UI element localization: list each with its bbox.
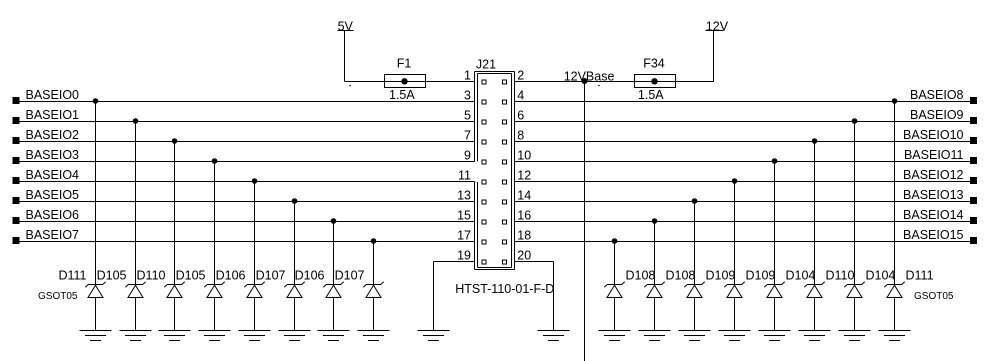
svg-text:10: 10 bbox=[517, 149, 531, 163]
svg-text:16: 16 bbox=[517, 209, 531, 223]
svg-text:BASEIO7: BASEIO7 bbox=[26, 228, 80, 242]
svg-text:8: 8 bbox=[517, 129, 524, 143]
svg-text:15: 15 bbox=[457, 209, 471, 223]
svg-text:BASEIO1: BASEIO1 bbox=[26, 108, 80, 122]
svg-text:BASEIO0: BASEIO0 bbox=[26, 88, 80, 102]
svg-text:18: 18 bbox=[517, 229, 531, 243]
svg-text:D108: D108 bbox=[626, 269, 656, 283]
svg-text:F34: F34 bbox=[643, 56, 665, 70]
svg-text:BASEIO3: BASEIO3 bbox=[26, 148, 80, 162]
svg-text:3: 3 bbox=[464, 89, 471, 103]
svg-text:4: 4 bbox=[517, 89, 524, 103]
svg-text:HTST-110-01-F-D: HTST-110-01-F-D bbox=[455, 282, 554, 296]
svg-text:BASEIO13: BASEIO13 bbox=[903, 188, 963, 202]
svg-text:D104: D104 bbox=[786, 269, 816, 283]
svg-text:11: 11 bbox=[458, 169, 471, 183]
svg-text:D105: D105 bbox=[176, 269, 206, 283]
svg-text:BASEIO15: BASEIO15 bbox=[903, 228, 963, 242]
svg-text:D110: D110 bbox=[137, 269, 166, 283]
svg-text:D109: D109 bbox=[706, 269, 736, 283]
svg-text:J21: J21 bbox=[476, 57, 496, 71]
svg-text:6: 6 bbox=[517, 109, 524, 123]
svg-text:BASEIO6: BASEIO6 bbox=[26, 208, 80, 222]
svg-text:D111: D111 bbox=[906, 269, 934, 283]
svg-text:D105: D105 bbox=[97, 269, 127, 283]
svg-text:BASEIO4: BASEIO4 bbox=[26, 168, 80, 182]
svg-text:1: 1 bbox=[464, 69, 471, 83]
svg-text:BASEIO14: BASEIO14 bbox=[903, 208, 963, 222]
svg-text:1.5A: 1.5A bbox=[389, 88, 415, 102]
svg-text:D111: D111 bbox=[58, 269, 86, 283]
svg-text:5V: 5V bbox=[338, 20, 354, 34]
svg-text:D110: D110 bbox=[826, 269, 855, 283]
svg-text:D108: D108 bbox=[666, 269, 696, 283]
svg-text:9: 9 bbox=[464, 149, 471, 163]
svg-text:BASEIO11: BASEIO11 bbox=[904, 148, 964, 162]
svg-text:BASEIO8: BASEIO8 bbox=[910, 88, 964, 102]
svg-text:D109: D109 bbox=[746, 269, 776, 283]
svg-text:D106: D106 bbox=[295, 269, 325, 283]
svg-text:D107: D107 bbox=[335, 269, 365, 283]
svg-text:BASEIO12: BASEIO12 bbox=[903, 168, 963, 182]
svg-text:12: 12 bbox=[517, 169, 531, 183]
svg-text:BASEIO10: BASEIO10 bbox=[903, 128, 963, 142]
svg-text:D106: D106 bbox=[216, 269, 246, 283]
svg-text:2: 2 bbox=[517, 69, 524, 83]
svg-text:14: 14 bbox=[517, 189, 531, 203]
svg-text:GSOT05: GSOT05 bbox=[38, 291, 78, 302]
svg-text:BASEIO2: BASEIO2 bbox=[26, 128, 80, 142]
svg-text:BASEIO5: BASEIO5 bbox=[26, 188, 80, 202]
svg-text:F1: F1 bbox=[397, 56, 412, 70]
svg-text:13: 13 bbox=[457, 189, 471, 203]
svg-text:D104: D104 bbox=[866, 269, 896, 283]
svg-text:7: 7 bbox=[464, 129, 471, 143]
svg-text:12VBase: 12VBase bbox=[564, 70, 615, 84]
svg-text:1.5A: 1.5A bbox=[638, 88, 664, 102]
svg-text:GSOT05: GSOT05 bbox=[914, 291, 954, 302]
svg-text:D107: D107 bbox=[256, 269, 286, 283]
svg-text:5: 5 bbox=[464, 109, 471, 123]
svg-text:12V: 12V bbox=[706, 20, 729, 34]
svg-text:20: 20 bbox=[517, 249, 531, 263]
svg-text:17: 17 bbox=[457, 229, 471, 243]
svg-text:19: 19 bbox=[457, 249, 471, 263]
svg-text:BASEIO9: BASEIO9 bbox=[910, 108, 964, 122]
